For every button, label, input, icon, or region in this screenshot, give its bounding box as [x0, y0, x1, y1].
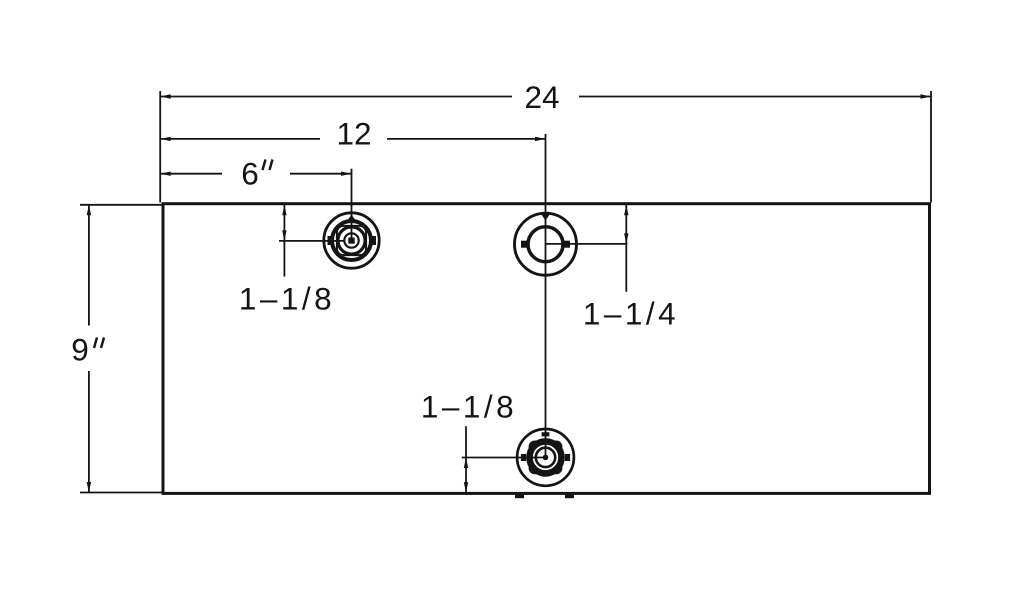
tank outline (24 x 9 rectangle) — [163, 204, 930, 494]
dimension 24 line — [160, 94, 931, 98]
dimension 24 text — [524, 79, 559, 115]
extension line left vertical (for 24/12/6 dims) — [159, 91, 161, 203]
dimension 6in text — [241, 155, 272, 191]
dimension 1-1/8 second (fitting C center to bottom edge) — [462, 426, 543, 492]
dimension 1-1/8 first (top edge to fitting A center) — [279, 205, 345, 277]
extension line right vertical (for 24 dim) — [930, 91, 932, 203]
dimension 1-1/4 (top edge to fitting B center) — [546, 205, 629, 292]
fitting C (12in from left, 1-1/8 from bottom) — [517, 429, 574, 486]
fitting A (6in from left, 1-1/8 from top) — [324, 213, 379, 268]
svg-text:12: 12 — [336, 115, 371, 151]
dimension 1-1/8 second text — [421, 388, 517, 424]
dimension 12 text — [336, 115, 371, 151]
extension line top-left horizontal (for 9in dim) — [80, 204, 162, 206]
fitting C feet below bottom edge — [515, 495, 574, 499]
svg-text:6: 6 — [241, 155, 259, 191]
dimension 12 line — [160, 137, 545, 141]
svg-text:1–1/8: 1–1/8 — [239, 281, 335, 317]
dimension 9in line — [87, 205, 91, 493]
svg-text:1–1/8: 1–1/8 — [421, 388, 517, 424]
svg-text:1–1/4: 1–1/4 — [583, 295, 679, 331]
dimension 1-1/4 text — [583, 295, 679, 331]
fitting B (12in from left, 1-1/4 from top) — [515, 213, 577, 275]
dimension 1-1/8 first text — [239, 281, 335, 317]
extension line at 6in down to first fitting center — [351, 169, 353, 241]
extension line at 12in through tank to bottom fitting — [545, 134, 547, 458]
dimension 6in line — [160, 172, 351, 176]
extension line bottom-left horizontal (for 9in dim) — [80, 492, 162, 494]
dimension 9in text — [71, 332, 104, 368]
svg-text:9: 9 — [71, 332, 89, 368]
svg-text:24: 24 — [524, 79, 559, 115]
